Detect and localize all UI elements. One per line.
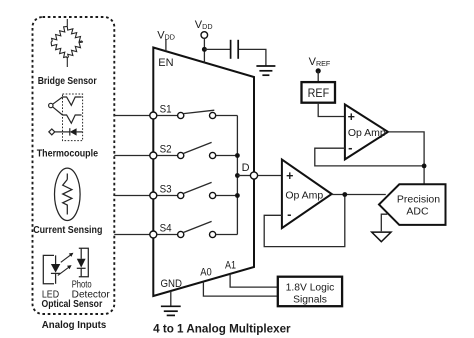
LED diode triangle (51, 264, 60, 273)
wire switch SW3 to output bus (216, 195, 238, 197)
VREF terminal dot (316, 68, 321, 73)
switch SW3 pole contact (178, 192, 184, 198)
switch SW1 throw contact (210, 112, 216, 118)
optical sensor LED (43, 255, 60, 283)
svg-text:-: - (287, 207, 291, 222)
wire U3 output down to ADC (388, 132, 424, 184)
svg-text:Optical Sensor: Optical Sensor (42, 299, 103, 310)
wire capacitor to ground (239, 49, 266, 65)
junction dot bus/S2 (235, 153, 240, 158)
analog inputs dashed enclosure (33, 17, 115, 314)
svg-text:VREF: VREF (309, 56, 331, 68)
junction dot bus/S3 (235, 193, 240, 198)
wire switch SW4 to output bus (216, 234, 238, 236)
svg-text:Analog Inputs: Analog Inputs (42, 320, 107, 331)
switch SW2 pole contact (178, 152, 184, 158)
wire S4 pin to switch pole (157, 234, 178, 236)
svg-text:VDD: VDD (195, 19, 213, 31)
D pin circle (250, 172, 257, 179)
switch SW4 arm (open) (184, 221, 212, 232)
1.8V logic signals box (278, 277, 342, 307)
switch SW3 throw contact (210, 192, 216, 198)
thermocouple (49, 94, 83, 141)
optical sensor photo detector (77, 248, 89, 276)
LED light arrows (58, 253, 74, 276)
thermocouple diode (70, 128, 77, 135)
switch SW2 arm (open) (184, 142, 212, 153)
wire switch SW1 to output bus (216, 115, 238, 117)
junction dot VDD/cap node (202, 47, 207, 52)
svg-text:Signals: Signals (293, 295, 327, 306)
wire U3 feedback (315, 148, 424, 166)
wire REF to U1 + input (318, 103, 345, 117)
wire VREF to REF box (317, 71, 319, 82)
wire VDD to EN edge (165, 40, 167, 52)
svg-text:S2: S2 (160, 143, 172, 155)
svg-text:S3: S3 (160, 183, 172, 195)
wire D to buffer op amp + input (258, 175, 282, 177)
signal ground arrow (ADC) (372, 232, 391, 242)
switch SW4 pole contact (178, 231, 184, 237)
wire GND to earth ground (170, 291, 172, 306)
junction dot U3 output/feedback (422, 164, 427, 169)
svg-text:Precision: Precision (397, 193, 440, 205)
S4 pin circle (150, 231, 157, 238)
wire S1 pin to switch pole (157, 115, 178, 117)
op-amp U2 (buffer) (282, 160, 332, 229)
photo detector diode triangle (77, 259, 86, 268)
wire switch SW2 to output bus (216, 155, 238, 157)
svg-text:ADC: ADC (406, 205, 429, 217)
wire A1 to logic box (230, 274, 277, 287)
S1 pin circle (150, 112, 157, 119)
svg-text:GND: GND (161, 278, 183, 290)
voltage reference REF box (302, 82, 336, 103)
svg-text:S4: S4 (160, 222, 172, 234)
S2 pin circle (150, 152, 157, 159)
bridge sensor (51, 19, 83, 67)
wire bus to D pin (237, 175, 250, 177)
earth ground (capacitor) (256, 66, 275, 75)
svg-text:4 to 1 Analog Multiplexer: 4 to 1 Analog Multiplexer (153, 323, 291, 335)
svg-text:Bridge Sensor: Bridge Sensor (38, 76, 97, 87)
wire sensor bus to S3 (114, 195, 153, 197)
svg-text:+: + (348, 110, 355, 124)
wire sensor bus to S1 (114, 115, 153, 117)
S3 pin circle (150, 192, 157, 199)
wire node to decoupling capacitor (204, 48, 230, 50)
switch SW4 throw contact (210, 231, 216, 237)
wire U2 output to ADC (332, 194, 386, 196)
wire sensor bus to S2 (114, 155, 153, 157)
switch SW2 throw contact (210, 152, 216, 158)
mux output bus (236, 116, 238, 235)
op-amp U3 (reference buffer) (345, 105, 388, 160)
switch SW3 arm (open) (184, 182, 212, 193)
decoupling capacitor C1 (231, 40, 239, 59)
wire A0 to logic box (203, 282, 277, 297)
precision ADC block (379, 184, 446, 225)
multiplexer U1 trapezoid body (153, 48, 254, 297)
switch SW1 arm (closed) (184, 110, 215, 113)
svg-text:+: + (286, 169, 293, 183)
wire ADC to signal ground (381, 214, 387, 231)
svg-text:Current Sensing: Current Sensing (33, 225, 102, 236)
wire S3 pin to switch pole (157, 195, 178, 197)
junction dot U2 output/feedback (342, 192, 347, 197)
svg-text:A1: A1 (225, 259, 236, 271)
svg-text:REF: REF (308, 86, 330, 100)
svg-text:Op Amp: Op Amp (285, 189, 323, 201)
svg-text:EN: EN (158, 57, 173, 69)
VDD terminal circle (201, 32, 208, 39)
svg-text:A0: A0 (200, 267, 212, 279)
junction dot bus/D tap (235, 173, 240, 178)
wire sensor bus to S4 (114, 234, 153, 236)
svg-text:D: D (242, 162, 250, 174)
earth ground (mux GND) (161, 306, 181, 315)
wire VDD down to mux top edge (203, 38, 205, 62)
svg-text:1.8V Logic: 1.8V Logic (286, 283, 335, 294)
svg-text:-: - (348, 140, 352, 155)
svg-text:S1: S1 (160, 103, 172, 115)
wire S2 pin to switch pole (157, 155, 178, 157)
svg-text:Op Amp: Op Amp (348, 127, 386, 139)
wire U2 feedback (264, 195, 345, 247)
switch SW1 pole contact (178, 112, 184, 118)
current sensing (55, 168, 81, 220)
svg-text:Thermocouple: Thermocouple (37, 149, 99, 160)
